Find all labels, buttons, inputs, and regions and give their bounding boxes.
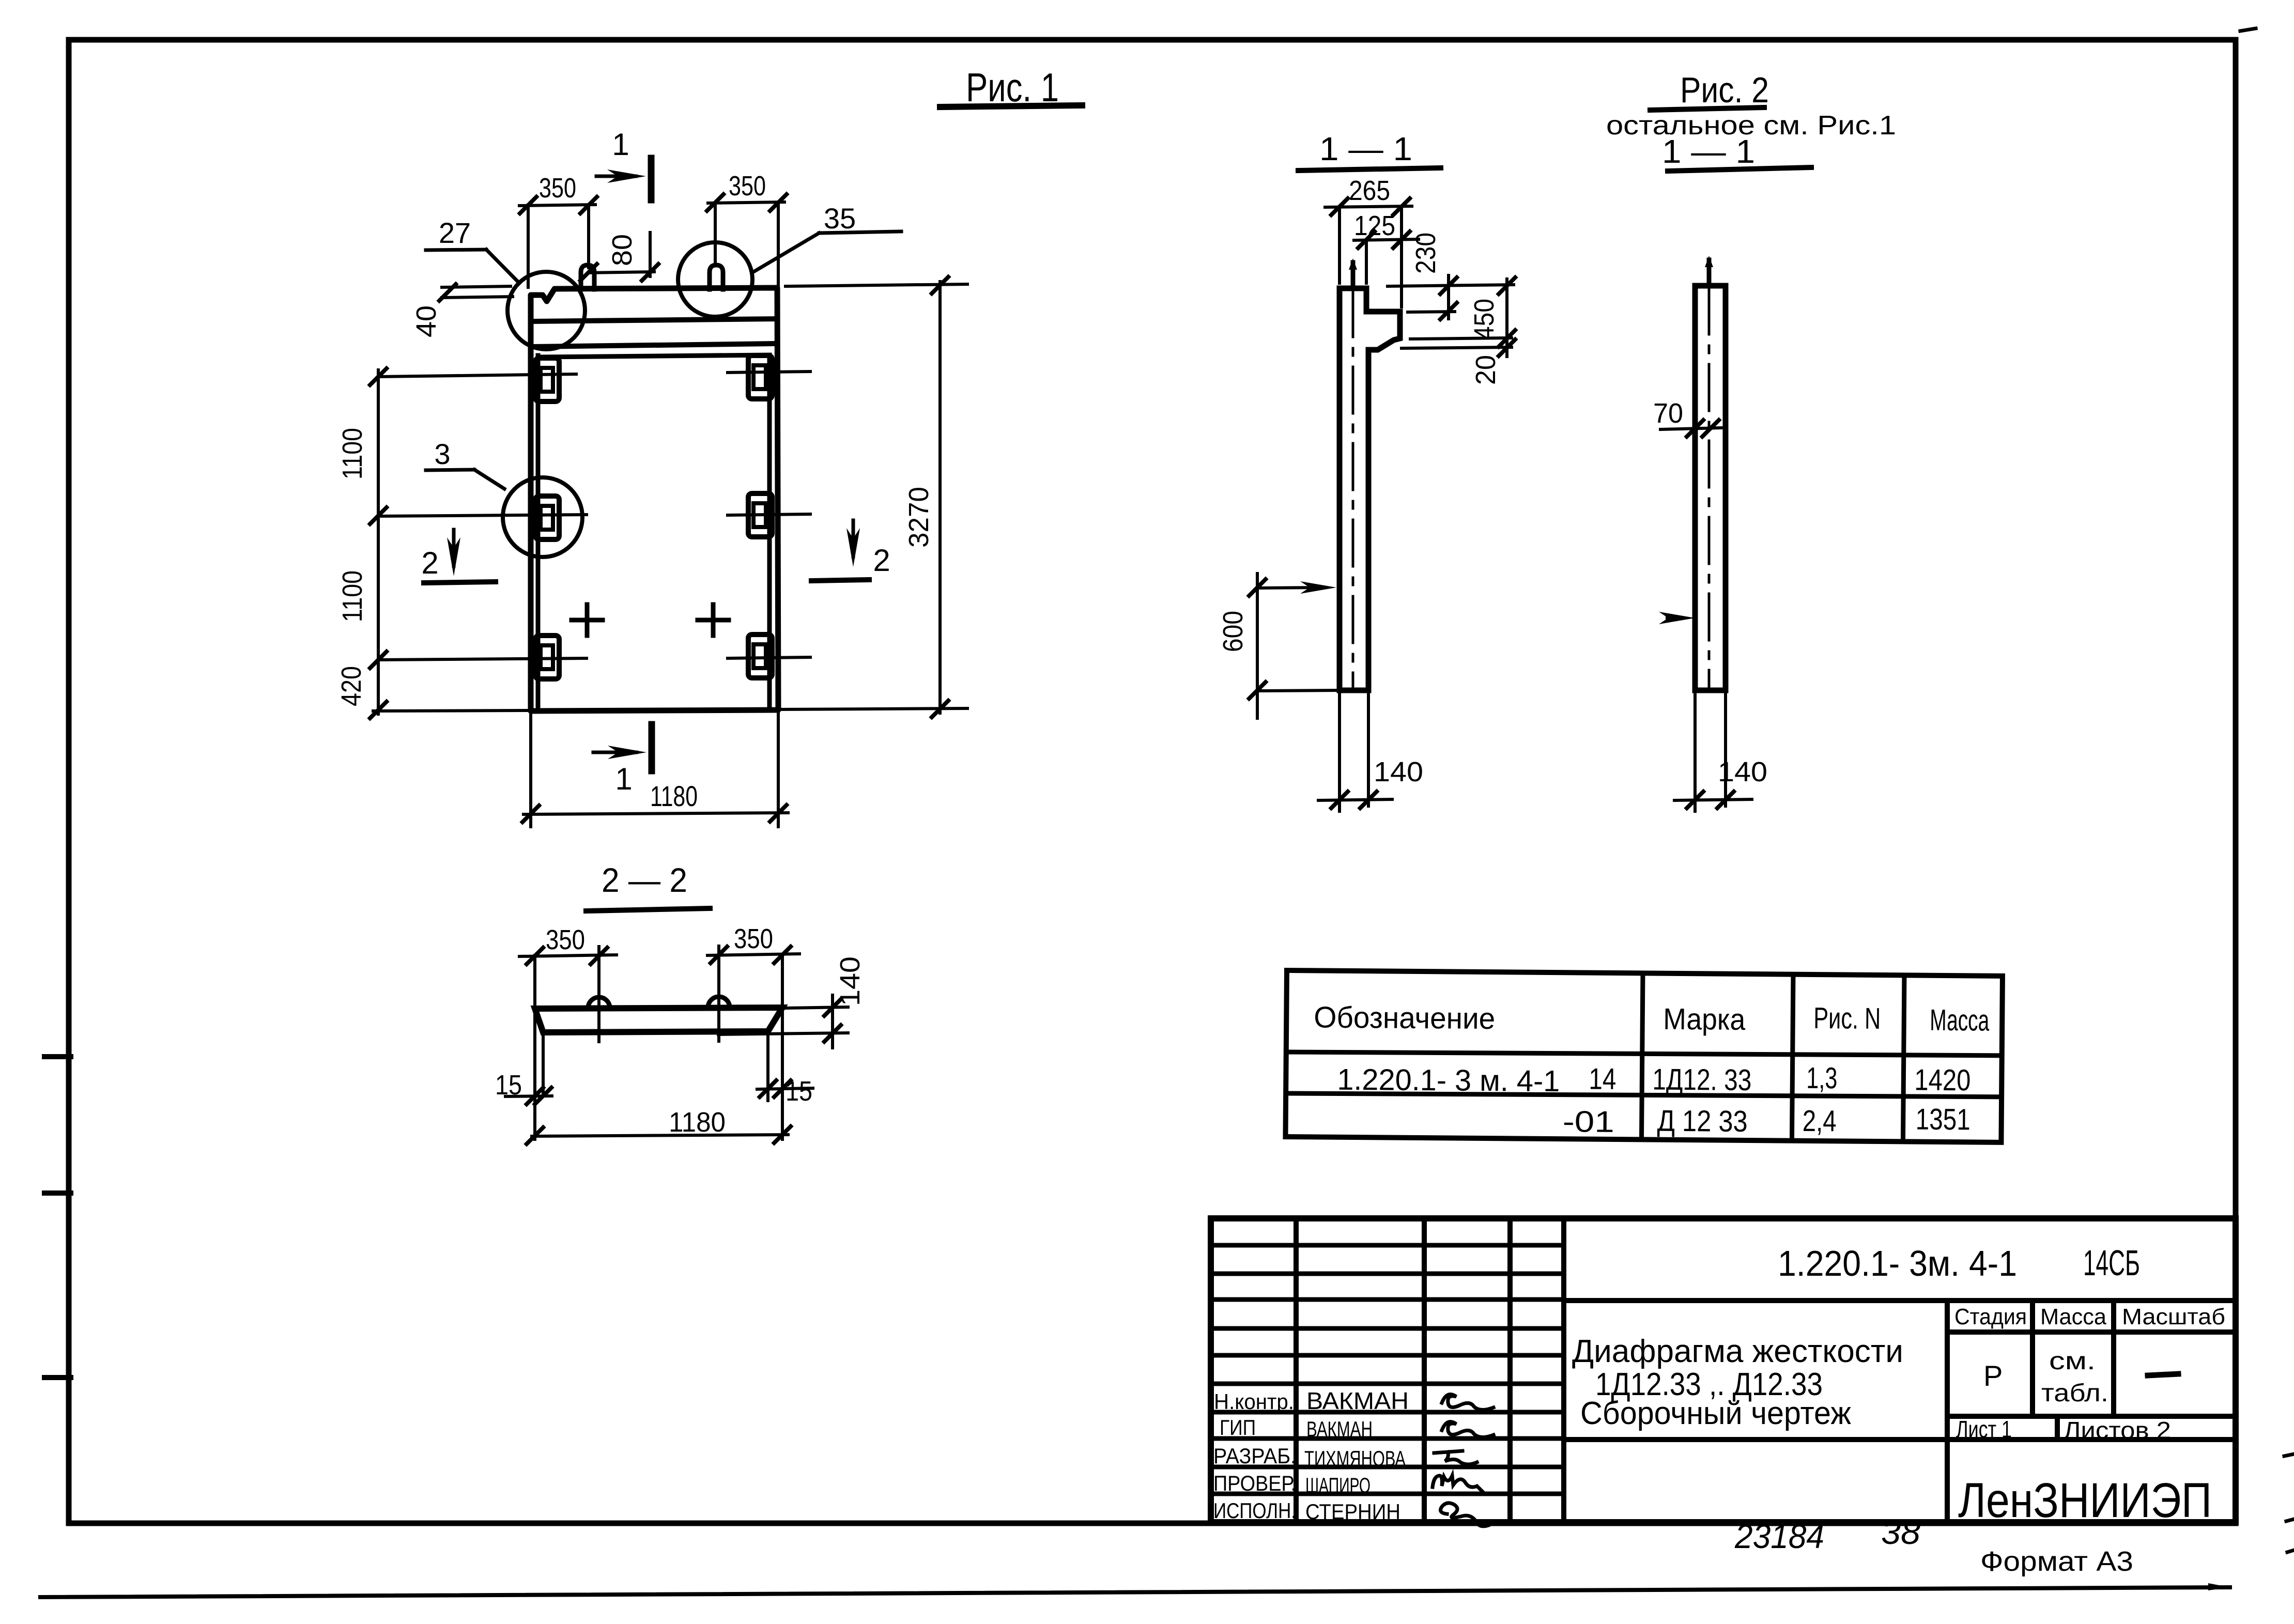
centerline row1 left — [378, 374, 576, 377]
svg-text:ВАКМАН: ВАКМАН — [1306, 1387, 1409, 1414]
svg-text:20: 20 — [1470, 355, 1501, 385]
list row divider — [1947, 1414, 2236, 1419]
dim 350 top-right — [707, 194, 787, 286]
svg-text:Рис. N: Рис. N — [1813, 1001, 1881, 1035]
svg-text:1180: 1180 — [669, 1107, 726, 1138]
label 27 leader — [426, 250, 519, 283]
svg-text:табл.: табл. — [2041, 1380, 2108, 1407]
detail circle 35 — [678, 242, 752, 317]
dim chain left line — [370, 368, 387, 718]
beam line 2 — [532, 344, 776, 347]
edge mark right 2 — [2286, 1519, 2294, 1521]
dim 80 — [580, 233, 658, 281]
svg-text:ЛенЗНИИЭП: ЛенЗНИИЭП — [1958, 1473, 2212, 1528]
embed plate top-left — [535, 358, 559, 401]
sig Shapiro — [1433, 1476, 1483, 1492]
sig row line 5 — [1211, 1353, 1564, 1358]
lifting pin top — [1707, 260, 1712, 286]
slab outline — [535, 1008, 782, 1032]
embed plate bottom-right — [748, 635, 772, 678]
lifting pin right — [710, 265, 723, 289]
dim 350 top-left — [519, 197, 597, 287]
svg-text:1100: 1100 — [337, 428, 368, 480]
cross mark right — [698, 605, 729, 636]
sig row line 7 — [1211, 1410, 1564, 1415]
label 35 leader — [755, 231, 901, 271]
svg-text:2 — 2: 2 — 2 — [602, 861, 687, 899]
svg-text:35: 35 — [824, 202, 856, 235]
svg-text:1,3: 1,3 — [1806, 1061, 1838, 1095]
dim 1180 bottom — [522, 712, 788, 827]
bottom extension right — [779, 708, 967, 709]
sig row line 2 — [1211, 1272, 1564, 1276]
svg-text:Р: Р — [1983, 1359, 2003, 1392]
spec header line — [1286, 1050, 2002, 1058]
sig row line 8 — [1211, 1436, 1564, 1441]
centerline loop left — [597, 947, 601, 1042]
svg-text:ШАПИРО: ШАПИРО — [1305, 1473, 1371, 1497]
svg-text:2: 2 — [421, 546, 438, 580]
svg-text:Сборочный чертеж: Сборочный чертеж — [1580, 1396, 1851, 1431]
edge mark right 3 — [2287, 1550, 2294, 1552]
title underline right — [1668, 167, 1811, 171]
svg-text:Масштаб: Масштаб — [2122, 1304, 2225, 1329]
sig Tikhmanova — [1434, 1451, 1477, 1464]
cross mark left — [572, 605, 603, 636]
sig row line 9 — [1211, 1465, 1564, 1470]
svg-text:600: 600 — [1218, 611, 1249, 652]
sig row line 4 — [1211, 1326, 1564, 1331]
svg-text:3270: 3270 — [903, 487, 934, 548]
svg-text:350: 350 — [729, 171, 766, 202]
dim 40 — [439, 284, 513, 301]
massa/masshtab divider — [2111, 1301, 2116, 1416]
svg-text:ТИХМЯНОВА: ТИХМЯНОВА — [1304, 1446, 1406, 1471]
sig Sternin — [1441, 1503, 1488, 1526]
signature table col line 1 — [1294, 1218, 1299, 1522]
svg-text:Рис. 2: Рис. 2 — [1680, 70, 1769, 110]
wall axis centerline — [1708, 288, 1711, 688]
embed plate top-right — [748, 355, 772, 399]
svg-text:140: 140 — [835, 956, 866, 1006]
centerline row2 right — [728, 514, 810, 515]
svg-text:1.220.1- 3 м. 4-1: 1.220.1- 3 м. 4-1 — [1337, 1063, 1560, 1098]
stadiya column divider — [1945, 1301, 1950, 1522]
svg-text:125: 125 — [1354, 210, 1395, 241]
svg-text:15: 15 — [495, 1070, 522, 1101]
svg-text:350: 350 — [546, 924, 585, 955]
centerline loop right — [717, 946, 720, 1041]
wall outline — [1695, 286, 1726, 690]
section mark 1 bottom — [593, 724, 652, 771]
spec col line 1 — [1641, 973, 1643, 1139]
dim 140 bottom — [1318, 692, 1392, 811]
embed plate mid-right — [748, 493, 772, 537]
bottom trim line — [40, 1587, 2230, 1597]
dim 125 — [1354, 231, 1419, 283]
dim 230 — [1388, 275, 1514, 319]
detail circle 3 — [503, 477, 582, 557]
svg-text:1: 1 — [612, 127, 629, 162]
dim 1180 — [527, 1126, 791, 1144]
svg-text:Обозначение: Обозначение — [1314, 1000, 1495, 1035]
dim 70 — [1660, 420, 1722, 437]
fold mark left upper — [44, 1190, 71, 1196]
loop left — [588, 997, 610, 1008]
dim 3270 — [786, 277, 967, 717]
signature table right edge — [1561, 1218, 1566, 1522]
svg-text:38: 38 — [1881, 1513, 1920, 1551]
fold mark left lower — [44, 1375, 71, 1380]
svg-text:Стадия: Стадия — [1954, 1304, 2027, 1329]
svg-text:ИСПОЛН.: ИСПОЛН. — [1213, 1498, 1296, 1523]
svg-text:ПРОВЕР.: ПРОВЕР. — [1213, 1471, 1296, 1495]
svg-text:14: 14 — [1589, 1062, 1616, 1096]
loop right — [708, 997, 730, 1008]
level arrow left — [1659, 612, 1695, 624]
svg-text:1180: 1180 — [650, 780, 698, 812]
svg-text:80: 80 — [607, 234, 638, 266]
svg-text:350: 350 — [734, 923, 773, 954]
centerline row1 right — [728, 372, 810, 373]
stadiya/massa divider — [2030, 1301, 2035, 1416]
dim 15 right — [757, 1032, 813, 1101]
panel outline — [531, 288, 778, 711]
svg-text:1Д12. 33: 1Д12. 33 — [1652, 1063, 1752, 1097]
spec table outline — [1285, 970, 2002, 1142]
title underline — [940, 105, 1082, 107]
trim line arrowhead — [2208, 1583, 2230, 1590]
spec row line — [1286, 1091, 2002, 1099]
panel inner edge left — [536, 355, 541, 709]
bottom extension left — [373, 710, 529, 711]
svg-text:1.220.1- 3м. 4-1: 1.220.1- 3м. 4-1 — [1778, 1243, 2017, 1283]
svg-text:420: 420 — [336, 666, 367, 706]
svg-text:70: 70 — [1653, 398, 1683, 429]
svg-text:3: 3 — [434, 438, 450, 470]
svg-text:350: 350 — [539, 173, 576, 204]
svg-text:230: 230 — [1410, 233, 1441, 274]
title block outer — [1211, 1218, 2236, 1522]
wall profile — [1340, 288, 1400, 690]
dim 350 left — [519, 948, 617, 1139]
dim 15 left — [505, 1032, 552, 1104]
svg-text:РАЗРАБ.: РАЗРАБ. — [1213, 1444, 1296, 1468]
wall axis centerline — [1352, 290, 1354, 688]
fold mark left top — [44, 1054, 71, 1059]
spec col line 2 — [1792, 975, 1793, 1141]
svg-text:140: 140 — [1374, 756, 1423, 787]
svg-text:14СБ: 14СБ — [2083, 1243, 2140, 1283]
svg-text:2: 2 — [873, 543, 890, 578]
svg-text:23184: 23184 — [1734, 1517, 1824, 1555]
title underline — [1298, 168, 1441, 171]
svg-text:140: 140 — [1718, 756, 1767, 787]
web top edge — [538, 355, 769, 357]
edge mark right 1 — [2284, 1454, 2294, 1456]
svg-text:Масса: Масса — [1930, 1003, 1990, 1038]
svg-text:1: 1 — [615, 762, 632, 796]
svg-text:450: 450 — [1469, 299, 1500, 340]
spec col line 3 — [1903, 975, 1904, 1141]
scale dash — [2148, 1374, 2178, 1375]
section mark 2 left — [424, 530, 496, 583]
title underline — [586, 908, 710, 911]
corner mark top right — [2240, 28, 2256, 31]
sig row line 1 — [1211, 1243, 1564, 1248]
centerline row2 left — [378, 515, 587, 516]
dim 600 — [1249, 574, 1338, 718]
centerline row3 left — [378, 658, 587, 660]
svg-text:Д 12 33: Д 12 33 — [1657, 1104, 1748, 1138]
stadiya header underline — [1947, 1329, 2236, 1335]
beam line 1 — [532, 319, 777, 321]
title underline — [1650, 107, 1764, 110]
dim 140 bottom — [1674, 692, 1752, 811]
dim 450 and 20 — [1402, 277, 1515, 357]
lifting pin left — [581, 265, 594, 289]
sig Vakman 2 — [1442, 1422, 1494, 1437]
svg-text:1100: 1100 — [337, 570, 368, 622]
section mark 2 right — [811, 520, 869, 581]
signature table col line 3 — [1507, 1218, 1513, 1522]
svg-text:-01: -01 — [1562, 1105, 1614, 1139]
list cell divider — [2055, 1416, 2060, 1440]
svg-text:1 — 1: 1 — 1 — [1662, 133, 1755, 170]
signature table col line 2 — [1422, 1218, 1427, 1522]
svg-text:Диафрагма жесткости: Диафрагма жесткости — [1572, 1334, 1903, 1369]
svg-text:Листов 2: Листов 2 — [2064, 1417, 2171, 1444]
svg-text:265: 265 — [1349, 175, 1390, 206]
svg-text:1 — 1: 1 — 1 — [1319, 130, 1412, 167]
svg-text:40: 40 — [411, 305, 442, 337]
svg-text:Лист 1: Лист 1 — [1956, 1416, 2012, 1443]
dim 265 — [1325, 198, 1412, 307]
svg-text:см.: см. — [2049, 1348, 2096, 1375]
sig Vakman 1 — [1442, 1395, 1494, 1410]
svg-text:15: 15 — [786, 1076, 812, 1107]
svg-text:Марка: Марка — [1663, 1002, 1746, 1037]
embed plate bottom-left — [535, 636, 559, 679]
centerline row3 right — [728, 657, 810, 658]
panel inner edge right — [767, 357, 772, 709]
svg-text:27: 27 — [439, 216, 471, 249]
embed plate mid-left — [535, 496, 559, 539]
section mark 1 top — [596, 158, 651, 200]
svg-text:ВАКМАН: ВАКМАН — [1306, 1417, 1373, 1441]
svg-text:2,4: 2,4 — [1802, 1104, 1837, 1138]
label 3 leader — [426, 470, 504, 489]
sig row line 6 — [1211, 1382, 1564, 1386]
svg-text:Формат А3: Формат А3 — [1980, 1546, 2133, 1577]
title area divider — [1564, 1298, 2236, 1303]
dim 350 right — [707, 947, 799, 1139]
svg-text:Н.контр.: Н.контр. — [1214, 1389, 1294, 1414]
lifting pin top — [1351, 262, 1356, 288]
detail circle 27 — [507, 272, 585, 349]
sig row line 3 — [1211, 1297, 1564, 1302]
svg-text:1351: 1351 — [1916, 1103, 1971, 1137]
dim 140 right — [718, 995, 848, 1048]
svg-text:Масса: Масса — [2040, 1304, 2107, 1329]
svg-text:1420: 1420 — [1914, 1063, 1971, 1097]
bottom band line — [1564, 1437, 2236, 1442]
svg-text:СТЕРНИН: СТЕРНИН — [1305, 1499, 1400, 1524]
svg-text:ГИП: ГИП — [1220, 1415, 1256, 1440]
sig row line 10 — [1211, 1492, 1564, 1496]
